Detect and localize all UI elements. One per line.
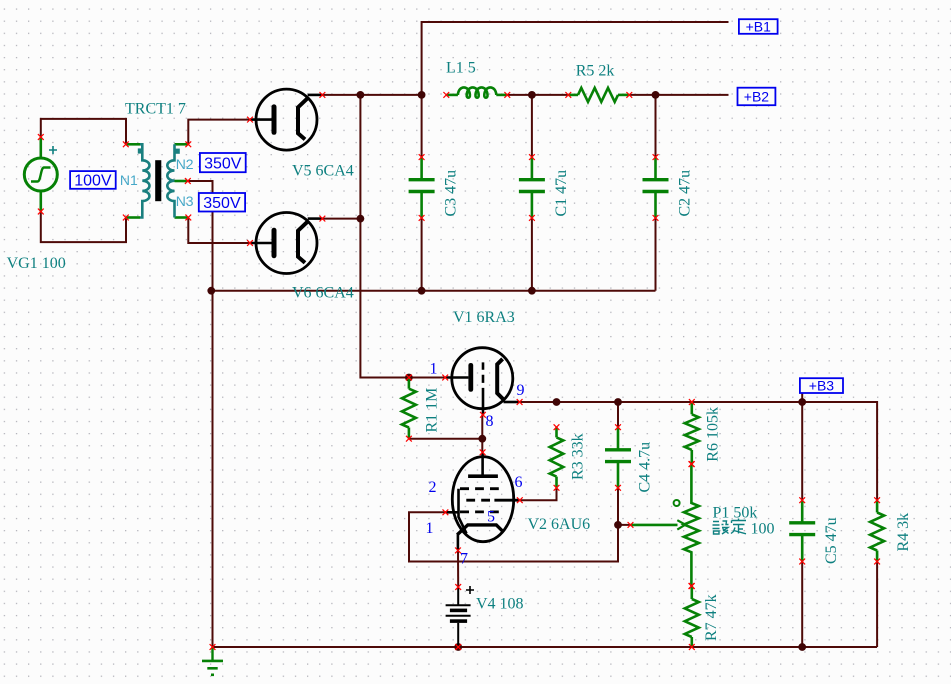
wire wiper node around to V2 grid1 <box>409 512 618 561</box>
svg-text:6: 6 <box>515 474 523 491</box>
potentiometer P1 <box>628 461 699 589</box>
wire C1 top <box>531 95 533 157</box>
wire R1 bottom to V1 grid node <box>409 438 482 440</box>
wire C2 bottom <box>655 218 657 291</box>
svg-text:C5 47u: C5 47u <box>823 517 840 564</box>
svg-text:N3: N3 <box>176 193 194 209</box>
svg-text:R4 3k: R4 3k <box>895 513 912 552</box>
wire +B1 rail <box>422 22 729 95</box>
capacitor C3 <box>409 154 435 221</box>
svg-text:V6 6CA4: V6 6CA4 <box>292 285 354 302</box>
capacitor C5 <box>789 497 815 564</box>
junction <box>798 398 806 406</box>
svg-text:C2 47u: C2 47u <box>676 170 693 217</box>
svg-text:V4 108: V4 108 <box>476 596 524 613</box>
junction <box>357 91 365 99</box>
label box 100V <box>70 171 116 190</box>
svg-text:R6 105k: R6 105k <box>705 407 722 462</box>
svg-text:C4 4.7u: C4 4.7u <box>637 442 654 493</box>
svg-text:1: 1 <box>426 520 434 537</box>
svg-text:2: 2 <box>429 479 437 496</box>
wire rectifier output down to V1 grid row <box>360 95 445 378</box>
wire V1 pin8 to node to V2 plate <box>481 415 483 453</box>
wire right branch bottom <box>876 562 878 648</box>
junction <box>454 643 462 651</box>
wire C2 top <box>655 95 657 157</box>
wire C3 top <box>421 95 423 157</box>
inductor L1 <box>443 87 510 97</box>
wire VG1 bottom to transformer N1 bottom <box>41 212 126 243</box>
svg-text:R1 1M: R1 1M <box>424 388 441 433</box>
svg-text:+B2: +B2 <box>744 89 770 105</box>
label box +B3 <box>800 378 843 394</box>
wire +B3 box stub <box>801 393 803 402</box>
transformer TRCT1 <box>123 141 191 220</box>
svg-text:R7 47k: R7 47k <box>703 594 720 641</box>
svg-text:VG1 100: VG1 100 <box>7 255 66 272</box>
label box 350V upper <box>200 153 246 172</box>
wire C1 bottom <box>531 218 533 291</box>
wire V2 cathode pin7 to battery <box>457 550 459 587</box>
svg-text:5: 5 <box>487 509 495 526</box>
junction <box>652 91 660 99</box>
wire R5 to +B2 <box>629 94 728 96</box>
wire V5 anode to B+ rail <box>322 94 421 96</box>
capacitor C1 <box>519 154 545 221</box>
capacitor C4 <box>605 424 631 490</box>
junction <box>405 374 413 382</box>
svg-text:350V: 350V <box>204 155 242 172</box>
resistor R5 <box>565 88 632 102</box>
junction <box>357 215 365 223</box>
svg-text:9: 9 <box>517 382 525 399</box>
svg-text:N1: N1 <box>120 172 138 188</box>
rectifier tube V6 <box>247 213 325 274</box>
wire V6 anode to node <box>322 218 360 220</box>
svg-text:V5 6CA4: V5 6CA4 <box>292 163 354 180</box>
junction <box>478 435 486 443</box>
svg-text:P1 50k: P1 50k <box>713 505 758 522</box>
label box +B1 <box>739 19 778 35</box>
wire +B3 rail from V1 plate <box>520 402 878 500</box>
triode V1 <box>442 348 522 418</box>
wire return rail <box>213 290 656 292</box>
resistor R7 <box>685 583 699 650</box>
svg-text:7: 7 <box>460 551 468 568</box>
ground <box>202 644 223 675</box>
wire C5 top <box>801 402 803 500</box>
svg-text:R5 2k: R5 2k <box>576 63 615 80</box>
label box +B2 <box>738 88 776 106</box>
rectifier tube V5 <box>247 89 325 150</box>
junction <box>798 643 806 651</box>
resistor R6 <box>685 399 699 467</box>
svg-text:100V: 100V <box>74 173 112 190</box>
wire N2 top to V5 cathode <box>188 120 250 145</box>
svg-text:100: 100 <box>751 521 775 538</box>
wire C4 top <box>617 402 619 427</box>
wire C5 bottom <box>801 562 803 648</box>
svg-text:1: 1 <box>430 361 438 378</box>
wire R3 bottom to V2 screen <box>520 488 557 500</box>
pentode V2 <box>443 449 523 553</box>
svg-text:L1 5: L1 5 <box>446 60 476 77</box>
wire VG1 top to transformer N1 top <box>41 119 126 144</box>
battery V4 <box>446 584 474 650</box>
svg-text:350V: 350V <box>203 195 241 212</box>
junction <box>553 398 561 406</box>
junction <box>528 91 536 99</box>
junction <box>614 398 622 406</box>
label settei 100 (kanji) <box>713 519 747 535</box>
wire N3 bottom to V6 cathode <box>188 218 250 244</box>
svg-text:N2: N2 <box>176 156 194 172</box>
junction <box>418 91 426 99</box>
svg-text:V2 6AU6: V2 6AU6 <box>528 516 591 533</box>
resistor R4 <box>870 497 884 564</box>
svg-text:+B1: +B1 <box>746 19 772 35</box>
label box 350V lower <box>199 193 245 212</box>
wire C4 bottom to wiper node <box>618 488 630 525</box>
junction <box>528 287 536 295</box>
svg-text:TRCT1 7: TRCT1 7 <box>125 101 186 118</box>
svg-text:8: 8 <box>486 413 494 430</box>
wire ground rail <box>213 646 878 648</box>
junction <box>418 287 426 295</box>
junction <box>614 521 622 529</box>
svg-text:C3 47u: C3 47u <box>443 170 460 217</box>
resistor R3 <box>550 424 564 490</box>
svg-text:R3 33k: R3 33k <box>570 433 587 480</box>
wire center tap down to ground rail <box>188 181 213 647</box>
voltage source VG1 <box>24 134 57 214</box>
junction <box>207 287 215 295</box>
resistor R1 <box>402 375 416 442</box>
svg-text:C1 47u: C1 47u <box>553 170 570 217</box>
wire L1 to C1 node to R5 <box>507 94 568 96</box>
svg-text:V1 6RA3: V1 6RA3 <box>453 309 515 326</box>
svg-text:+B3: +B3 <box>809 378 835 394</box>
wire C3 bottom <box>421 218 423 291</box>
capacitor C2 <box>643 154 669 221</box>
